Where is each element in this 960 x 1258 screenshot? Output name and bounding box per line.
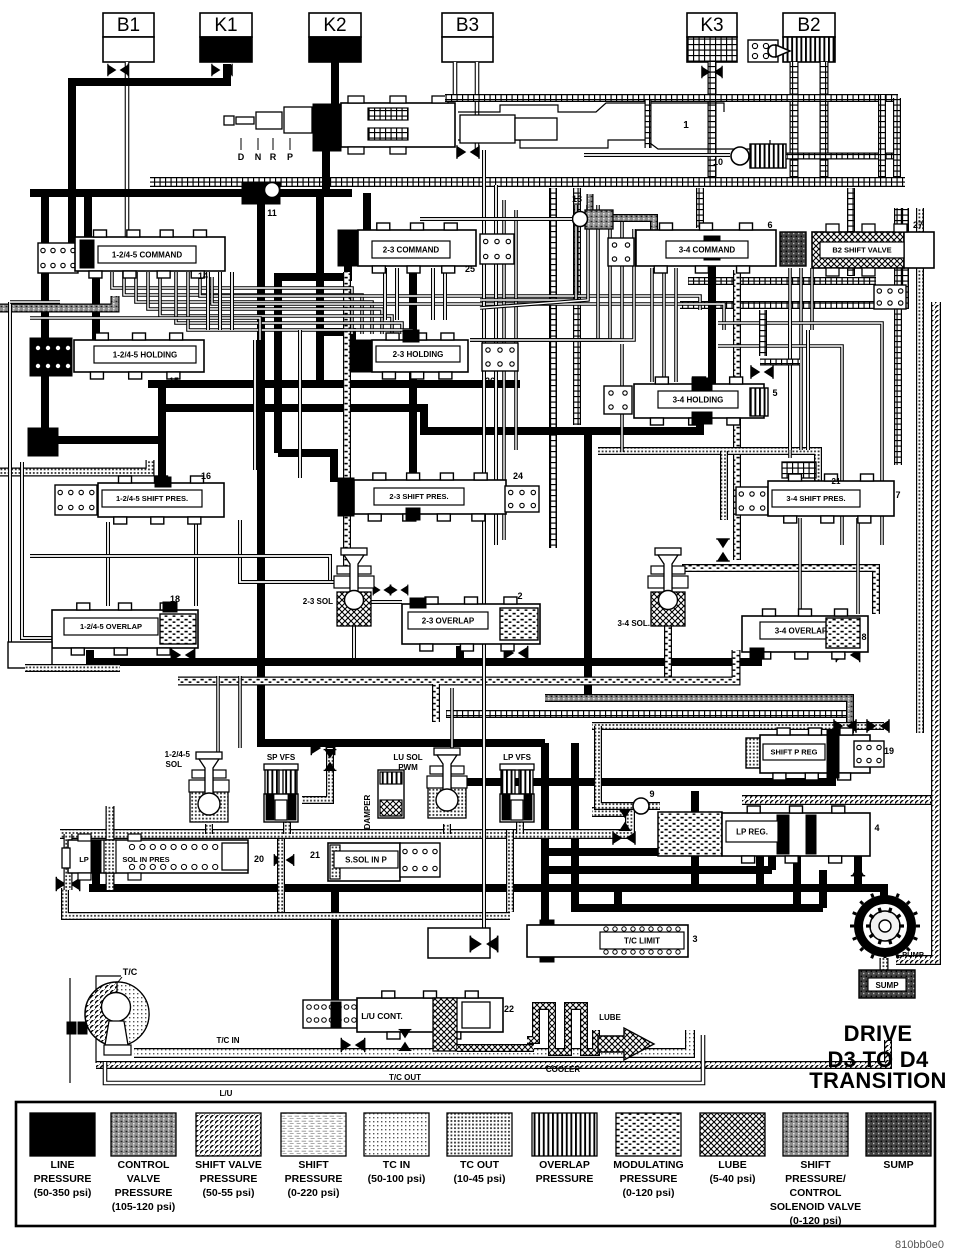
modulating band below overlap header xyxy=(178,650,736,681)
svg-text:SUMP: SUMP xyxy=(875,981,899,990)
pump xyxy=(854,895,916,957)
checkball 9 channel xyxy=(598,726,660,806)
svg-text:2-3 COMMAND: 2-3 COMMAND xyxy=(383,245,440,254)
legend swatch shift pressure/control solenoid valve xyxy=(783,1113,848,1156)
svg-text:PRESSURE: PRESSURE xyxy=(285,1173,343,1185)
valve shift p reg solenoid box xyxy=(854,741,884,767)
valve 1-2/4-5 overlap mod box xyxy=(160,614,196,644)
svg-text:(50-100 psi): (50-100 psi) xyxy=(368,1173,426,1185)
wire jogs above shift pres row xyxy=(298,330,302,478)
channel drop left of S.SOL xyxy=(277,839,285,912)
line pressure shift p reg drop xyxy=(440,774,832,790)
legend swatch control valve pressure xyxy=(111,1113,176,1156)
arrows on overlap header mid xyxy=(504,646,527,660)
svg-text:2-3 SOL: 2-3 SOL xyxy=(303,597,333,606)
clutch box K3 xyxy=(687,13,737,37)
valve 2-3 shift pres xyxy=(338,478,354,516)
line pressure long shelf y384 xyxy=(148,380,520,388)
line pressure jog to 2-3 shift pres xyxy=(278,453,334,482)
svg-text:DAMPER: DAMPER xyxy=(363,794,372,829)
valve 3-4 holding solenoid box xyxy=(604,386,632,414)
wire bundle command long rails xyxy=(200,277,700,310)
modulating drop mid-left xyxy=(432,684,440,722)
svg-text:SP VFS: SP VFS xyxy=(267,753,296,762)
svg-text:5: 5 xyxy=(772,388,777,398)
valve 3-4 holding xyxy=(634,384,764,418)
pump to sump stem xyxy=(880,958,889,970)
svg-text:21: 21 xyxy=(310,850,320,860)
svg-text:T/C LIMIT: T/C LIMIT xyxy=(624,936,660,945)
legend swatch tc out xyxy=(447,1113,512,1156)
svg-text:VALVE: VALVE xyxy=(127,1173,160,1185)
svg-text:PRESSURE: PRESSURE xyxy=(34,1173,92,1185)
svg-text:26: 26 xyxy=(485,376,495,386)
wire bundle right of 3-4 holding xyxy=(788,310,792,450)
line pressure lp reg bottom links xyxy=(691,791,699,888)
railroad band 3 xyxy=(680,208,905,305)
supply band left drop xyxy=(64,834,73,890)
legend swatch sump xyxy=(866,1113,931,1156)
check valve 10 xyxy=(731,147,749,165)
valve 2-3 overlap xyxy=(402,604,540,644)
line pressure jog to 2-3 holding cap xyxy=(320,332,352,344)
valve 1-2/4-5 command xyxy=(75,237,225,271)
svg-text:14: 14 xyxy=(198,271,208,281)
valve S.SOL IN P xyxy=(328,843,400,881)
svg-text:(5-40 psi): (5-40 psi) xyxy=(709,1173,755,1185)
modulating vertical to 2-3 sol xyxy=(343,272,351,566)
legend swatch shift pressure xyxy=(281,1113,346,1156)
svg-text:LU SOL: LU SOL xyxy=(393,753,422,762)
svg-text:B3: B3 xyxy=(456,15,479,36)
arrows on center vertical xyxy=(470,936,497,953)
line pressure LP reg feed xyxy=(541,848,660,856)
legend swatch modulating pressure xyxy=(616,1113,681,1156)
arrows on solenoid header xyxy=(311,741,334,755)
svg-text:3: 3 xyxy=(692,934,697,944)
wire bundle left frame xyxy=(10,302,52,648)
svg-text:6: 6 xyxy=(767,220,772,230)
valve 1-2/4-5 overlap top plug xyxy=(163,602,177,612)
LU SOL PWM solenoid xyxy=(428,786,466,818)
valve 2-3 holding xyxy=(350,340,372,372)
svg-text:LP VFS: LP VFS xyxy=(503,753,532,762)
sp vfs output channel xyxy=(302,748,330,800)
ladder band mid right y714 xyxy=(446,710,848,718)
manual valve spool body xyxy=(341,103,455,147)
torque converter case xyxy=(70,976,121,1083)
clutch box B2 xyxy=(783,13,835,37)
wire B1 feed down xyxy=(125,62,130,240)
svg-text:S.SOL IN P: S.SOL IN P xyxy=(345,855,387,864)
torque converter torus xyxy=(85,982,149,1046)
svg-text:SHIFT: SHIFT xyxy=(800,1159,831,1171)
line pressure 3-4 column xyxy=(708,232,716,412)
svg-text:1-2/4-5 COMMAND: 1-2/4-5 COMMAND xyxy=(112,250,182,259)
svg-text:K3: K3 xyxy=(700,15,723,36)
line pressure 1-2/4-5 holding feed xyxy=(92,270,100,342)
clutch box B1 xyxy=(103,13,154,37)
tc in band xyxy=(134,1030,690,1053)
ladder drop to check valve 10 xyxy=(645,100,652,148)
svg-text:3-4 OVERLAP: 3-4 OVERLAP xyxy=(775,626,828,635)
svg-text:TRANSITION: TRANSITION xyxy=(809,1068,946,1093)
svg-text:1-2/4-5: 1-2/4-5 xyxy=(165,750,191,759)
svg-text:SOLENOID VALVE: SOLENOID VALVE xyxy=(770,1201,861,1213)
manual valve top ladder band xyxy=(445,94,898,102)
svg-text:11: 11 xyxy=(267,208,277,218)
line pressure left drop xyxy=(41,193,49,430)
legend swatch tc in xyxy=(364,1113,429,1156)
legend swatch overlap pressure xyxy=(532,1113,597,1156)
svg-text:PRESSURE: PRESSURE xyxy=(536,1173,594,1185)
lu channel thin xyxy=(105,1035,703,1083)
solenoid 3-4 SOL xyxy=(651,592,685,626)
channel 13 riser xyxy=(587,194,594,210)
wire B2 feed ladder left xyxy=(790,62,799,186)
line pressure manual valve to header xyxy=(322,150,330,193)
channel right edge dots vertical xyxy=(916,208,924,733)
shift p reg top band xyxy=(592,722,884,730)
control band right mid xyxy=(545,698,850,733)
channel 3-4 sol tail xyxy=(664,612,672,678)
svg-text:N: N xyxy=(255,152,262,162)
supply risers xyxy=(205,824,213,834)
line pressure main header y193 xyxy=(30,189,352,197)
valve 3-4 shift pres xyxy=(768,481,894,516)
valve 2-3 holding solenoid box xyxy=(482,343,518,371)
channel 2-3 sol tail xyxy=(352,612,356,658)
wire bundle between commands xyxy=(470,205,598,340)
svg-text:(50-55 psi): (50-55 psi) xyxy=(203,1187,255,1199)
wire bundle center verticals xyxy=(482,150,486,935)
svg-text:B1: B1 xyxy=(117,15,140,36)
arrows on sp vfs channel xyxy=(324,750,337,771)
railroad band 2 below B2 shift valve xyxy=(688,277,876,285)
wire B2 feed ladder right xyxy=(820,62,829,186)
channel through LP SOL IN PRES xyxy=(106,806,115,890)
svg-text:2-3 OVERLAP: 2-3 OVERLAP xyxy=(422,616,475,625)
svg-text:T/C: T/C xyxy=(123,967,138,977)
svg-text:TC IN: TC IN xyxy=(383,1159,410,1171)
legend swatch lube xyxy=(700,1113,765,1156)
wire K3 feed ladder xyxy=(708,62,717,182)
valve 2-3 command xyxy=(338,230,358,266)
svg-text:PUMP: PUMP xyxy=(902,950,924,959)
line pressure junction drops xyxy=(257,204,265,740)
svg-text:10: 10 xyxy=(713,157,723,167)
svg-text:3-4 SOL.: 3-4 SOL. xyxy=(618,619,650,628)
line pressure 2-3 command cap link xyxy=(344,264,352,277)
arrows on overlap header left xyxy=(171,648,194,662)
manual valve right ladder frame xyxy=(893,98,901,182)
line pressure riser into LP SOL IN PRES xyxy=(92,872,100,888)
svg-text:20: 20 xyxy=(254,854,264,864)
manual valve bore contour top xyxy=(458,103,724,112)
line pressure K2 drop xyxy=(331,62,339,108)
svg-text:SOL IN PRES: SOL IN PRES xyxy=(122,855,169,864)
svg-text:LP REG.: LP REG. xyxy=(736,827,768,836)
valve 3-4 holding striped cap xyxy=(750,388,768,416)
svg-text:SHIFT: SHIFT xyxy=(298,1159,329,1171)
svg-text:2: 2 xyxy=(517,591,522,601)
valve 1-2/4-5 shift pres solenoid box xyxy=(55,485,97,515)
arrows right of LP SOL IN PRES xyxy=(274,854,294,866)
svg-text:K2: K2 xyxy=(323,15,346,36)
svg-text:2-3 SHIFT PRES.: 2-3 SHIFT PRES. xyxy=(389,492,448,501)
valve T/C limit xyxy=(527,925,688,957)
valve 1-2/4-5 command solenoid box xyxy=(38,243,78,273)
clutch box K1 xyxy=(200,13,252,37)
svg-text:T/C IN: T/C IN xyxy=(216,1036,239,1045)
wire B3 feed down-left xyxy=(455,62,477,98)
line pressure shelf y870 xyxy=(548,866,772,874)
channel 2-3 to 3-4 shift pres band xyxy=(598,451,818,482)
valve shift p reg xyxy=(746,738,760,768)
valve 1-2/4-5 shift pres xyxy=(98,483,224,517)
valve 3-4 command solenoid box xyxy=(608,238,634,266)
svg-text:SOL: SOL xyxy=(166,760,183,769)
line pressure 575 drop from solenoid header xyxy=(571,743,579,888)
valve 3-4 command sump block xyxy=(780,232,806,266)
wire bundle below 1-2/4-5 command xyxy=(112,272,352,334)
svg-text:SHIFT VALVE: SHIFT VALVE xyxy=(195,1159,262,1171)
line pressure B1-K1 header xyxy=(72,64,227,247)
tc out band left edge y472 xyxy=(0,460,150,472)
line pressure overlap header y662 xyxy=(90,650,758,662)
ladder vertical mid right xyxy=(573,188,581,425)
junction block 11 xyxy=(242,183,280,204)
wire bundle right of 3-4 command xyxy=(788,268,792,330)
valve LP reg xyxy=(722,813,870,856)
arrows below checkball 9 xyxy=(619,810,632,831)
arrows on tc in band xyxy=(341,1038,364,1052)
line pressure drop to 1-2/4-5 command xyxy=(84,193,92,240)
svg-text:CONTROL: CONTROL xyxy=(790,1187,842,1199)
svg-text:L/U CONT.: L/U CONT. xyxy=(361,1011,403,1021)
svg-text:B2: B2 xyxy=(797,15,820,36)
valve LP SOL IN PRES xyxy=(68,840,248,873)
valve 1-2/4-5 holding black box xyxy=(30,338,72,376)
valve 3-4 overlap mod box xyxy=(826,618,860,648)
valve 2-3 command solenoid box xyxy=(480,234,514,264)
wire center pair xyxy=(502,200,506,540)
ladder vertical mid left xyxy=(549,188,557,548)
solenoid icon left of B2 xyxy=(748,40,778,62)
arrows left of bottom header xyxy=(56,877,79,891)
wire horizontal mid left xyxy=(30,556,330,580)
tc out band bottom xyxy=(96,1040,888,1065)
wire bundle 2-3 command feeds xyxy=(383,268,387,320)
svg-text:(0-120 psi): (0-120 psi) xyxy=(623,1187,675,1199)
wire bundle 2-3 command to holding xyxy=(480,205,576,300)
svg-text:MODULATING: MODULATING xyxy=(613,1159,683,1171)
svg-text:LP: LP xyxy=(79,855,89,864)
control pressure band left edge xyxy=(0,296,115,308)
line pressure drop to 1-2/4-5 shift pres xyxy=(158,440,166,480)
svg-text:2-3 HOLDING: 2-3 HOLDING xyxy=(393,350,444,359)
ladder vertical right 851 xyxy=(847,188,855,276)
svg-text:OVERLAP: OVERLAP xyxy=(539,1159,590,1171)
svg-text:25: 25 xyxy=(465,264,475,274)
wire verticals to overlap row xyxy=(106,522,110,606)
line pressure shelf y408 xyxy=(162,408,700,431)
svg-text:PRESSURE: PRESSURE xyxy=(200,1173,258,1185)
valve 3-4 overlap xyxy=(742,616,868,652)
svg-text:18: 18 xyxy=(170,594,180,604)
svg-text:27: 27 xyxy=(913,220,923,230)
valve 2-3 overlap mod box xyxy=(500,608,538,640)
line pressure 2-3 command left cap drop xyxy=(316,193,324,384)
arrows under B1 xyxy=(108,64,128,76)
lube arrow xyxy=(598,1028,654,1060)
svg-text:(50-350 psi): (50-350 psi) xyxy=(34,1187,92,1199)
wire verticals 3-4 shift pres to overlap xyxy=(798,518,802,612)
svg-text:PRESSURE/: PRESSURE/ xyxy=(785,1173,846,1185)
ladder vertical K3 to 3-4 command xyxy=(696,188,704,228)
wire left frame horizontals xyxy=(10,300,60,304)
line pressure block left holding xyxy=(28,428,58,456)
svg-text:K1: K1 xyxy=(214,15,237,36)
valve 1-2/4-5 overlap left stub xyxy=(8,642,52,668)
ladder box above 3-4 shift pres xyxy=(782,462,816,478)
svg-text:LUBE: LUBE xyxy=(718,1159,747,1171)
ladder vertical 510 bottom xyxy=(506,830,514,912)
wire verticals to solenoid row xyxy=(216,676,220,752)
svg-text:DRIVE: DRIVE xyxy=(844,1021,913,1046)
svg-text:1-2/4-5 OVERLAP: 1-2/4-5 OVERLAP xyxy=(80,622,142,631)
svg-text:COOLER: COOLER xyxy=(546,1065,580,1074)
modulating band right y568 xyxy=(682,568,876,614)
svg-text:LUBE: LUBE xyxy=(599,1013,621,1022)
clutch box K2 xyxy=(309,13,361,37)
valve T/C limit left stub xyxy=(428,928,490,958)
wire bundle below 3-4 command xyxy=(650,268,654,382)
arrows on shift p reg band 2 xyxy=(867,719,889,733)
solenoid 1-2/4-5 SOL xyxy=(190,790,228,822)
svg-text:L/U: L/U xyxy=(220,1089,233,1098)
manual valve black block (K2 port) xyxy=(313,104,341,151)
line pressure drop to 2-3 command xyxy=(363,193,371,232)
sump xyxy=(859,970,915,998)
svg-text:1-2/4-5 HOLDING: 1-2/4-5 HOLDING xyxy=(113,350,177,359)
valve L/U control xyxy=(357,998,503,1032)
svg-text:TC OUT: TC OUT xyxy=(460,1159,500,1171)
line pressure T/C limit drop plug xyxy=(540,920,554,934)
svg-text:7: 7 xyxy=(895,490,900,500)
arrows under K3 xyxy=(702,66,722,78)
svg-text:T/C OUT: T/C OUT xyxy=(389,1073,421,1082)
valve LP reg mod box xyxy=(658,812,722,856)
svg-text:(0-120 psi): (0-120 psi) xyxy=(790,1215,842,1227)
checkball 9 xyxy=(633,798,649,814)
svg-text:3-4 COMMAND: 3-4 COMMAND xyxy=(679,245,736,254)
svg-text:(105-120 psi): (105-120 psi) xyxy=(112,1201,176,1213)
svg-text:22: 22 xyxy=(504,1004,514,1014)
valve 3-4 command xyxy=(636,230,776,266)
valve 1-2/4-5 overlap xyxy=(52,610,198,648)
arrows above 3-4 overlap xyxy=(716,539,730,561)
valve 2-3 shift pres solenoid box xyxy=(505,486,539,512)
svg-text:1-2/4-5 SHIFT PRES.: 1-2/4-5 SHIFT PRES. xyxy=(116,494,188,503)
valve B2 shift valve xyxy=(812,232,904,268)
svg-text:15: 15 xyxy=(169,376,179,386)
legend swatch shift valve pressure xyxy=(196,1113,261,1156)
manual valve spool extension xyxy=(460,115,515,143)
svg-text:3-4 SHIFT PRES.: 3-4 SHIFT PRES. xyxy=(786,494,845,503)
svg-text:LINE: LINE xyxy=(51,1159,75,1171)
line pressure lp reg right drop xyxy=(854,853,862,888)
line pressure solenoid header y743 xyxy=(261,740,545,743)
valve 3-4 shift pres solenoid box xyxy=(736,487,768,515)
wire rails right side xyxy=(718,323,882,545)
svg-text:13: 13 xyxy=(572,194,582,204)
solenoid supply band xyxy=(60,812,630,834)
svg-text:P: P xyxy=(287,152,293,162)
svg-text:9: 9 xyxy=(649,789,654,799)
svg-text:1: 1 xyxy=(683,120,689,131)
svg-text:SUMP: SUMP xyxy=(883,1159,913,1171)
line pressure drop 618 xyxy=(614,888,622,906)
svg-text:810bb0e0: 810bb0e0 xyxy=(895,1239,944,1251)
svg-text:D: D xyxy=(238,152,245,162)
line pressure 2-3 column xyxy=(409,264,417,488)
arrows on supply band xyxy=(613,831,635,845)
svg-text:21: 21 xyxy=(832,477,841,486)
line pressure 2-3 overlap drop xyxy=(456,646,464,662)
valve L/U control circles box xyxy=(303,1000,357,1028)
manual valve stem xyxy=(224,116,234,125)
channel right inner ladder vertical xyxy=(894,208,902,465)
svg-text:19: 19 xyxy=(884,746,894,756)
line pressure drop 545 xyxy=(541,743,549,930)
ladder band from check valve 10 to right frame xyxy=(786,153,893,160)
svg-text:16: 16 xyxy=(201,471,211,481)
arrows under K1 xyxy=(212,64,232,76)
legend frame xyxy=(16,1102,935,1226)
arrows below manual valve xyxy=(457,145,479,159)
svg-text:3-4 HOLDING: 3-4 HOLDING xyxy=(673,395,724,404)
svg-text:PRESSURE: PRESSURE xyxy=(115,1187,173,1199)
arrows left of 2-3 overlap xyxy=(373,585,391,596)
svg-text:24: 24 xyxy=(513,471,523,481)
sump suction channel xyxy=(742,795,936,805)
manual valve bore contour bottom xyxy=(458,140,770,149)
line pressure K2 long drop to L/U control xyxy=(331,888,339,1008)
arrows on lp reg right drop xyxy=(851,852,865,875)
legend swatch line pressure xyxy=(30,1113,95,1156)
valve 1-2/4-5 holding xyxy=(74,340,204,372)
channel right edge ladder vertical xyxy=(878,95,886,182)
solenoid 2-3 SOL xyxy=(337,592,371,626)
svg-text:8: 8 xyxy=(861,632,866,642)
arrows on overlap header right xyxy=(836,648,859,662)
line pressure pump shelf y908 xyxy=(575,888,823,908)
gray band under bottom header xyxy=(65,888,510,916)
wire B3 feed down xyxy=(475,62,480,150)
svg-text:4: 4 xyxy=(874,823,879,833)
B2 shift valve attachment xyxy=(874,285,906,309)
wire bundle command to holding right xyxy=(206,272,210,330)
svg-text:(0-220 psi): (0-220 psi) xyxy=(288,1187,340,1199)
line pressure drop 588 xyxy=(584,431,592,694)
ladder elbow above 3-4 holding cap xyxy=(759,310,767,356)
cooler lube run xyxy=(457,1044,534,1052)
line pressure shelf y440 xyxy=(40,384,162,440)
clutch box B3 xyxy=(442,13,493,37)
svg-text:PRESSURE: PRESSURE xyxy=(620,1173,678,1185)
svg-text:SHIFT P REG: SHIFT P REG xyxy=(771,748,818,757)
